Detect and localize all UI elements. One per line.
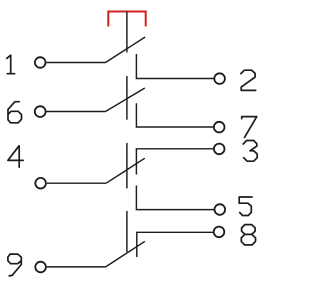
fixed contact bar 2	[136, 54, 213, 79]
fixed contact bar 3	[136, 149, 213, 175]
pin 4 terminal circle	[35, 178, 46, 189]
pin 9 terminal circle	[35, 262, 46, 273]
push-button actuator bracket (red)	[108, 12, 145, 27]
switch SC pole 4-3-5	[35, 144, 225, 215]
label 4	[8, 146, 23, 167]
actuator dashed link line	[126, 12, 128, 253]
switch SD pole 9-8	[35, 227, 224, 273]
switch blade SC	[106, 158, 145, 183]
label 5	[239, 197, 252, 216]
wire dash segment 4	[126, 211, 128, 252]
switch blade SD	[106, 241, 145, 267]
switch blade SA	[106, 37, 146, 63]
wire pin4	[47, 182, 106, 184]
label 1	[7, 55, 15, 73]
label 7	[242, 117, 257, 138]
fixed contact bar 5	[136, 186, 214, 210]
label 9	[8, 254, 21, 276]
fixed contact bar 7	[136, 103, 213, 127]
pin 5 terminal circle	[215, 204, 226, 215]
fixed contact bar 8	[137, 232, 213, 257]
pin 8 terminal circle	[214, 227, 225, 238]
label 8	[241, 225, 255, 245]
pin 7 terminal circle	[214, 122, 225, 133]
wire pin1	[46, 62, 105, 64]
pin number labels, CAD vector font style	[7, 55, 258, 276]
pin 3 terminal circle	[214, 144, 225, 155]
pin 6 terminal circle	[35, 106, 46, 117]
switch SA pole 1-2	[35, 37, 225, 84]
switch SB pole 6-7	[35, 88, 225, 132]
label 3	[243, 141, 257, 162]
switch blade SB	[106, 88, 145, 112]
wire pin9	[47, 266, 106, 268]
label 2	[241, 70, 256, 90]
wire dash segment 2	[126, 76, 128, 120]
pin 2 terminal circle	[214, 73, 225, 84]
label 6	[8, 102, 22, 123]
wire pin6	[46, 111, 105, 113]
pin 1 terminal circle	[35, 57, 46, 68]
wire dash segment 3	[126, 143, 128, 188]
wire dash segment 1	[126, 12, 128, 53]
